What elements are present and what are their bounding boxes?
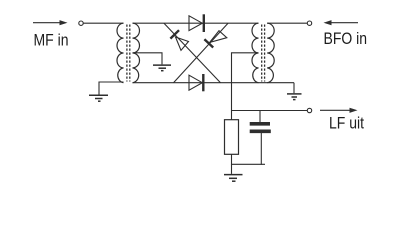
wire T1 center tap	[133, 53, 163, 65]
capacitor C plates	[250, 124, 271, 132]
diode D3 on diagonal B	[204, 31, 226, 48]
transformer T2 right winding	[267, 23, 274, 82]
svg-text:LF uit: LF uit	[329, 114, 364, 132]
diode D4 bottom	[189, 74, 203, 91]
wire LF output line	[232, 110, 308, 112]
wire ring diagonal A	[164, 23, 221, 82]
transformer T2 left winding	[252, 23, 259, 82]
wire ground stem output	[231, 164, 233, 174]
resistor R load	[225, 120, 239, 155]
ground T2	[287, 94, 302, 100]
wire ring diagonal B	[174, 23, 229, 82]
ground output	[224, 175, 243, 182]
wire T2 center tap to output	[232, 53, 259, 120]
svg-text:MF in: MF in	[34, 31, 69, 50]
arrow BFO input	[324, 20, 359, 25]
terminal BFO in	[307, 21, 311, 25]
terminal MF in	[79, 21, 83, 25]
transformer T1 secondary winding	[133, 23, 140, 82]
transformer T1 core	[127, 25, 130, 82]
terminal LF uit	[307, 108, 311, 112]
wire resistor bottom lead	[231, 154, 233, 165]
diode D1 top	[189, 14, 204, 32]
arrow MF input	[33, 20, 68, 25]
wire bottom rail	[133, 82, 295, 84]
wire output bottom	[232, 163, 266, 165]
transformer T2 core	[262, 25, 265, 82]
wire top rail	[133, 22, 259, 24]
capacitor C top lead	[259, 111, 261, 123]
arrow LF output	[320, 108, 358, 113]
wire T2 ground leg	[293, 83, 295, 94]
capacitor C bottom lead	[260, 133, 262, 165]
wire T2 right winding to BFO terminal	[267, 22, 307, 24]
ground T1 center tap	[153, 65, 171, 71]
ground T1 primary	[89, 95, 108, 101]
transformer T1 primary winding	[117, 23, 124, 82]
diode D2 on diagonal A	[170, 30, 188, 50]
wire MF terminal to T1	[83, 22, 123, 24]
wire T1 primary bottom	[99, 82, 124, 95]
svg-text:BFO in: BFO in	[324, 30, 368, 48]
